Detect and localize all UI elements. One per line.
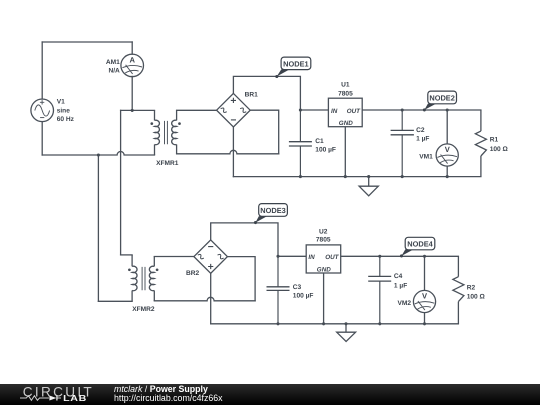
footer title text xyxy=(114,385,223,404)
svg-text:7805: 7805 xyxy=(338,90,353,97)
node flag NODE1 xyxy=(275,57,311,78)
bridge rectifier BR1 xyxy=(217,93,251,127)
wire XFMR1 secondary bottom with hop over BR1 minus lead xyxy=(177,150,279,154)
svg-text:V: V xyxy=(445,145,451,154)
junction dots upper xyxy=(97,108,449,178)
svg-text:100 Ω: 100 Ω xyxy=(467,293,486,300)
svg-text:XFMR2: XFMR2 xyxy=(132,306,155,313)
junction dots lower xyxy=(276,255,426,326)
wire AM1 top lead xyxy=(131,42,133,54)
svg-text:A: A xyxy=(130,56,136,65)
voltmeter VM1 xyxy=(436,110,458,177)
svg-text:C2: C2 xyxy=(416,127,425,134)
wire long vertical AM1 to XFMR2 primary top xyxy=(120,110,122,255)
resistor R2 xyxy=(453,256,464,324)
svg-text:R1: R1 xyxy=(490,136,499,143)
wire U1 GND lead xyxy=(344,127,346,177)
label AM1 name xyxy=(106,59,120,75)
resistor R1 xyxy=(475,110,486,177)
svg-text:IN: IN xyxy=(308,254,315,261)
wire BR1 right vertex loop xyxy=(250,110,279,154)
wire AM1 bottom lead xyxy=(131,76,133,110)
svg-text:R2: R2 xyxy=(467,284,476,291)
transformer XFMR2 xyxy=(128,255,158,301)
svg-text:V: V xyxy=(422,292,428,301)
svg-text:C3: C3 xyxy=(293,284,302,291)
svg-text:V1: V1 xyxy=(57,99,65,106)
svg-text:LAB: LAB xyxy=(63,394,87,403)
ground upper xyxy=(359,177,378,196)
svg-text:U1: U1 xyxy=(341,82,350,89)
ground lower xyxy=(337,324,356,342)
svg-text:VM1: VM1 xyxy=(419,154,433,161)
node flag NODE4 xyxy=(400,237,435,257)
svg-text:BR2: BR2 xyxy=(186,270,200,277)
wire node3 to U2 IN xyxy=(278,255,306,257)
svg-text:AM1: AM1 xyxy=(106,59,120,66)
bridge rectifier BR2 xyxy=(194,240,228,273)
svg-text:IN: IN xyxy=(331,108,338,115)
svg-text:C1: C1 xyxy=(315,138,324,145)
wire V1 bottom lead xyxy=(41,122,43,155)
svg-text:sine: sine xyxy=(57,107,71,114)
wire XFMR1 secondary top to BR1 xyxy=(177,109,217,111)
wire XFMR2 primary top link xyxy=(121,254,133,256)
wire BR2 plus output down to rail xyxy=(210,273,212,324)
CircuitLab logo xyxy=(0,384,110,405)
wire BR2 minus output up and right to node3 xyxy=(211,223,278,256)
wire top rail V1 to AM1 xyxy=(42,41,132,43)
footer bar xyxy=(0,384,540,405)
capacitor C1 xyxy=(289,110,312,177)
svg-text:NODE2: NODE2 xyxy=(429,93,454,102)
wire long vertical V1 minus to XFMR2 primary bottom xyxy=(97,155,99,301)
wire V1 minus rail with hop over vertical xyxy=(42,152,154,155)
wire AM1 junction to XFMR1 primary top xyxy=(121,109,155,111)
svg-text:1 µF: 1 µF xyxy=(416,136,429,143)
svg-text:OUT: OUT xyxy=(347,108,361,115)
wire XFMR2 secondary top to BR2 xyxy=(154,256,194,258)
wire XFMR2 primary bottom link xyxy=(98,300,132,302)
wire main lower ground rail xyxy=(211,323,459,325)
svg-text:NODE1: NODE1 xyxy=(283,59,308,68)
capacitor C2 xyxy=(391,110,414,177)
wire U2 GND lead xyxy=(323,273,325,324)
svg-text:BR1: BR1 xyxy=(245,92,259,99)
ammeter AM1 xyxy=(121,54,144,77)
svg-text:60 Hz: 60 Hz xyxy=(57,116,75,123)
wire XFMR2 secondary bottom with hop over BR2 plus lead xyxy=(154,297,255,301)
sine source V1 xyxy=(31,99,54,122)
svg-text:7805: 7805 xyxy=(316,237,331,244)
wire U1 OUT rail xyxy=(362,109,481,111)
transformer XFMR1 xyxy=(150,110,180,155)
wire U2 OUT rail xyxy=(341,255,459,257)
svg-text:N/A: N/A xyxy=(108,67,120,74)
svg-text:1 µF: 1 µF xyxy=(394,282,407,289)
voltmeter VM2 xyxy=(413,256,435,324)
node flag NODE2 xyxy=(423,91,457,111)
wire node1 to U1 IN xyxy=(300,109,328,111)
BR1 polarity marks xyxy=(231,98,236,120)
wire BR1 plus output up and right xyxy=(233,76,300,110)
svg-text:GND: GND xyxy=(339,120,353,127)
svg-text:VM2: VM2 xyxy=(397,300,411,307)
svg-text:100 µF: 100 µF xyxy=(293,293,314,300)
svg-text:NODE3: NODE3 xyxy=(260,206,285,215)
svg-text:NODE4: NODE4 xyxy=(407,240,433,249)
svg-text:GND: GND xyxy=(317,266,331,273)
node flag NODE3 xyxy=(254,204,288,225)
capacitor C3 xyxy=(267,256,290,324)
svg-text:C4: C4 xyxy=(394,273,403,280)
wire BR2 right vertex loop xyxy=(227,257,255,301)
svg-text:OUT: OUT xyxy=(325,254,339,261)
capacitor C4 xyxy=(368,256,391,324)
wire V1 top lead xyxy=(41,42,43,99)
BR2 polarity marks xyxy=(208,247,213,270)
svg-text:XFMR1: XFMR1 xyxy=(156,160,179,167)
svg-text:100 µF: 100 µF xyxy=(315,146,336,153)
label V1 value xyxy=(57,99,75,123)
svg-text:100 Ω: 100 Ω xyxy=(490,146,509,153)
svg-text:U2: U2 xyxy=(319,229,328,236)
wire main upper ground rail xyxy=(233,176,481,178)
regulator U1 xyxy=(328,98,362,176)
regulator U2 xyxy=(306,245,341,324)
wire BR1 minus output down to rail xyxy=(232,127,234,177)
